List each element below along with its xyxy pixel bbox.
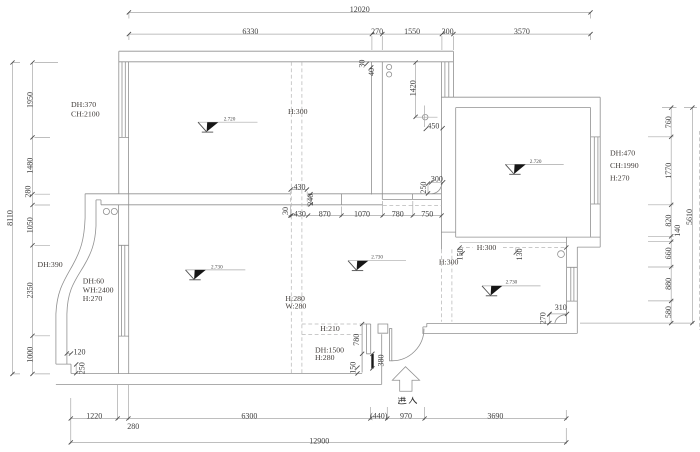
svg-text:450: 450	[427, 122, 439, 131]
svg-text:6300: 6300	[241, 411, 257, 420]
dim 30 40 top of partition	[365, 62, 369, 66]
wall top exterior inner face	[119, 61, 454, 63]
wall bedroom/bath partition west face	[371, 62, 373, 195]
svg-text:DH:60: DH:60	[83, 277, 104, 286]
svg-text:H:300: H:300	[439, 258, 459, 267]
dashed edge at image right	[699, 131, 700, 330]
wall bay outer curve	[56, 194, 85, 364]
svg-text:580: 580	[664, 306, 673, 318]
svg-text:760: 760	[664, 116, 673, 128]
dim line bottom row1	[71, 385, 567, 444]
wall outer east edge of bath block	[452, 51, 454, 97]
svg-text:30: 30	[358, 60, 367, 68]
dim 1420 bathroom	[415, 62, 417, 117]
wall bottom-right band top face	[427, 322, 567, 324]
dim line left row2	[33, 63, 59, 374]
svg-text:(440): (440)	[370, 411, 388, 420]
svg-text:1070: 1070	[354, 210, 370, 219]
svg-text:1480: 1480	[25, 158, 34, 174]
dashed opening left of right room	[441, 249, 452, 321]
dim 780 vestibule	[360, 322, 364, 326]
wall right room east outer face	[599, 97, 601, 247]
svg-text:H:270: H:270	[610, 174, 630, 183]
svg-text:380: 380	[377, 355, 386, 367]
beam dashed bathroom floor	[383, 204, 441, 206]
dim 150 vestibule	[355, 366, 359, 370]
wall vestibule west jamb	[362, 324, 371, 373]
svg-text:780: 780	[352, 334, 361, 346]
svg-text:1550: 1550	[404, 27, 420, 36]
svg-text:5610: 5610	[685, 209, 694, 225]
svg-text:660: 660	[664, 247, 673, 259]
wall living west faces	[118, 194, 128, 374]
arrow enter symbol	[392, 367, 419, 392]
svg-text:H:270: H:270	[83, 294, 103, 303]
column C1 dim lines	[428, 182, 444, 193]
dim 120 bay bottom	[67, 353, 72, 355]
dim 130 east nook	[515, 248, 517, 253]
svg-text:250: 250	[77, 362, 86, 374]
beam dashed H210 top	[302, 323, 362, 325]
window W3 right room east glazing	[591, 137, 601, 204]
svg-text:8110: 8110	[5, 210, 14, 226]
wall bottom-right band bottom face	[422, 332, 577, 334]
svg-text:40: 40	[367, 68, 376, 76]
wall bathroom east face	[440, 62, 442, 250]
ceiling light line east nook	[460, 241, 567, 243]
ceiling lamp circle-cross bathroom	[422, 114, 428, 120]
wall bottom inner face	[71, 373, 362, 375]
dim 150 east nook	[462, 248, 464, 254]
door stop black bar	[371, 354, 373, 369]
svg-text:120: 120	[74, 348, 86, 357]
wall lower-right outer step	[577, 247, 600, 333]
svg-text:150: 150	[349, 362, 358, 374]
door D1 swing arc	[392, 329, 424, 361]
svg-text:2.720: 2.720	[224, 117, 236, 123]
svg-text:1950: 1950	[25, 92, 34, 108]
svg-text:1050: 1050	[25, 217, 34, 233]
svg-text:CH:2100: CH:2100	[71, 110, 100, 119]
svg-text:310: 310	[555, 303, 567, 312]
dim 450 bathroom	[424, 127, 428, 131]
dim line right overall 5610	[691, 108, 693, 324]
svg-text:250: 250	[419, 182, 428, 194]
wall left upper outer face	[118, 51, 120, 194]
wall bay inner top step	[96, 200, 101, 205]
small circle east nook	[558, 251, 565, 258]
flue dashed box edges	[291, 192, 308, 207]
plumbing stack circles bathroom	[387, 64, 392, 69]
window W4 lower-right glazing	[567, 267, 578, 301]
level marker living 2.730	[186, 264, 246, 280]
dim line right row1	[580, 108, 697, 324]
wall bottom-right band left jamb step	[423, 323, 427, 333]
svg-text:DH:370: DH:370	[71, 100, 96, 109]
wall right room top outer face	[453, 96, 600, 98]
svg-text:H:300: H:300	[288, 107, 308, 116]
dim 240 flue right side	[310, 194, 312, 205]
wall bottom outer face	[56, 383, 382, 385]
svg-text:H:210: H:210	[320, 324, 340, 333]
dim line bottom overall 12900	[71, 428, 567, 444]
svg-text:130: 130	[515, 249, 524, 261]
dim 430 flue above wall	[290, 189, 307, 191]
svg-text:270: 270	[371, 27, 383, 36]
svg-text:1000: 1000	[25, 347, 34, 363]
dim 380 door stop	[370, 352, 374, 356]
wall left upper inner face	[128, 62, 130, 194]
pipes double circles living corner	[103, 208, 109, 214]
svg-text:H:280: H:280	[315, 353, 335, 362]
door D1 leaf	[390, 329, 392, 361]
svg-text:430: 430	[294, 210, 306, 219]
wall right room south jog	[441, 232, 455, 237]
wall right room top inner face	[456, 107, 591, 109]
column arc C1 bathroom corner	[432, 183, 443, 194]
svg-text:1420: 1420	[408, 80, 417, 96]
svg-text:2.730: 2.730	[371, 255, 383, 261]
svg-text:2.730: 2.730	[506, 280, 518, 286]
duct dashed riser right	[301, 62, 303, 374]
dim line left overall 8110	[13, 63, 21, 374]
level marker entry 2.730	[482, 280, 541, 296]
svg-text:30: 30	[281, 207, 290, 215]
svg-text:3570: 3570	[514, 27, 530, 36]
wall bay outer bottom step	[56, 364, 71, 373]
wall right room west inner face	[455, 108, 457, 233]
svg-text:820: 820	[664, 215, 673, 227]
svg-text:DH:390: DH:390	[38, 260, 63, 269]
svg-text:CH:1990: CH:1990	[610, 161, 639, 170]
svg-text:W:280: W:280	[285, 301, 306, 310]
svg-text:750: 750	[421, 210, 433, 219]
beam dashed east nook	[460, 247, 567, 249]
svg-text:870: 870	[319, 210, 331, 219]
dim row flue and bedroom door 30/430/870/1070/780/750	[289, 201, 442, 217]
wall lower-right inner face	[566, 237, 568, 323]
wall living top band upper face	[85, 193, 441, 195]
window W1 bedroom left glazing	[119, 62, 129, 138]
svg-text:280: 280	[127, 422, 139, 431]
duct dashed riser left	[290, 62, 292, 374]
svg-text:3690: 3690	[487, 411, 503, 420]
svg-text:DH:470: DH:470	[610, 148, 635, 157]
wall living top band lower face	[101, 204, 382, 206]
level marker bedroom 2.720	[198, 117, 258, 133]
svg-text:12020: 12020	[350, 5, 370, 14]
wall vestibule east edge	[381, 334, 383, 384]
wall entry pier	[378, 324, 388, 333]
svg-text:1770: 1770	[664, 163, 673, 179]
label jinru chinese	[398, 397, 417, 404]
column C2 dim lines	[549, 314, 567, 324]
svg-text:140: 140	[673, 225, 682, 237]
svg-text:300: 300	[431, 175, 443, 184]
wall bedroom door jamb	[341, 194, 343, 205]
svg-text:2.730: 2.730	[211, 264, 223, 270]
window W5 living west glazing	[118, 245, 128, 336]
svg-text:2350: 2350	[25, 282, 34, 298]
svg-text:2.720: 2.720	[530, 159, 542, 165]
beam dashed H210 bottom	[302, 333, 362, 335]
svg-text:270: 270	[538, 312, 547, 324]
wall top exterior outer face	[119, 50, 454, 52]
wall right room east inner face	[590, 108, 592, 237]
wall bay inner curve	[67, 200, 96, 364]
level marker right room 2.720	[505, 159, 563, 174]
wall right room floor line	[456, 236, 601, 238]
svg-text:300: 300	[442, 27, 454, 36]
level marker dining 2.730	[348, 255, 406, 271]
dim line top overall 12020	[129, 12, 591, 18]
dim 250 bay bottom	[75, 364, 77, 373]
window W2 bath east glazing	[441, 62, 453, 97]
svg-text:1220: 1220	[86, 411, 102, 420]
svg-text:970: 970	[400, 411, 412, 420]
svg-text:H:300: H:300	[477, 243, 497, 252]
svg-text:6330: 6330	[242, 27, 258, 36]
svg-text:240: 240	[306, 194, 315, 206]
column arc C2 lower-right corner	[555, 314, 567, 323]
svg-text:780: 780	[392, 210, 404, 219]
wall bathroom floor line	[382, 194, 441, 199]
svg-text:12900: 12900	[309, 436, 329, 445]
svg-text:430: 430	[294, 182, 306, 191]
dim line top row2	[129, 34, 591, 50]
svg-text:280: 280	[23, 186, 32, 198]
wall bedroom/bath partition east face	[381, 62, 383, 200]
svg-text:880: 880	[664, 278, 673, 290]
